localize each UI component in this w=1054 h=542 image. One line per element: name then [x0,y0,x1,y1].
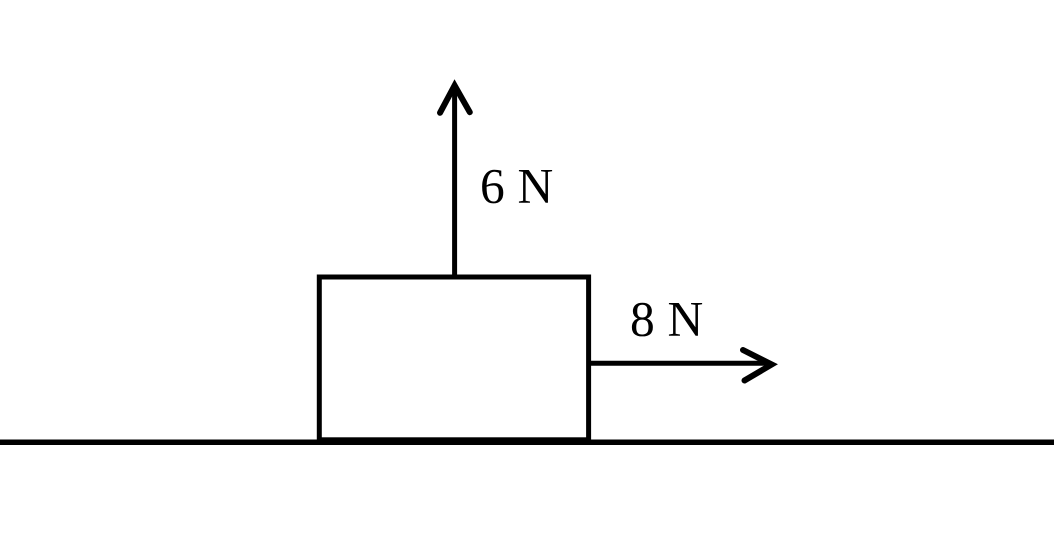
svg-text:6 N: 6 N [480,159,553,214]
wire: 8 N force arrow shaft [588,361,766,366]
svg-text:8 N: 8 N [630,292,703,347]
ground line [0,440,1054,446]
8 N force arrowhead [743,350,772,381]
box (block on surface) [319,277,588,440]
wire: 6 N force arrow shaft [452,90,457,279]
6 N force arrowhead [440,86,470,113]
